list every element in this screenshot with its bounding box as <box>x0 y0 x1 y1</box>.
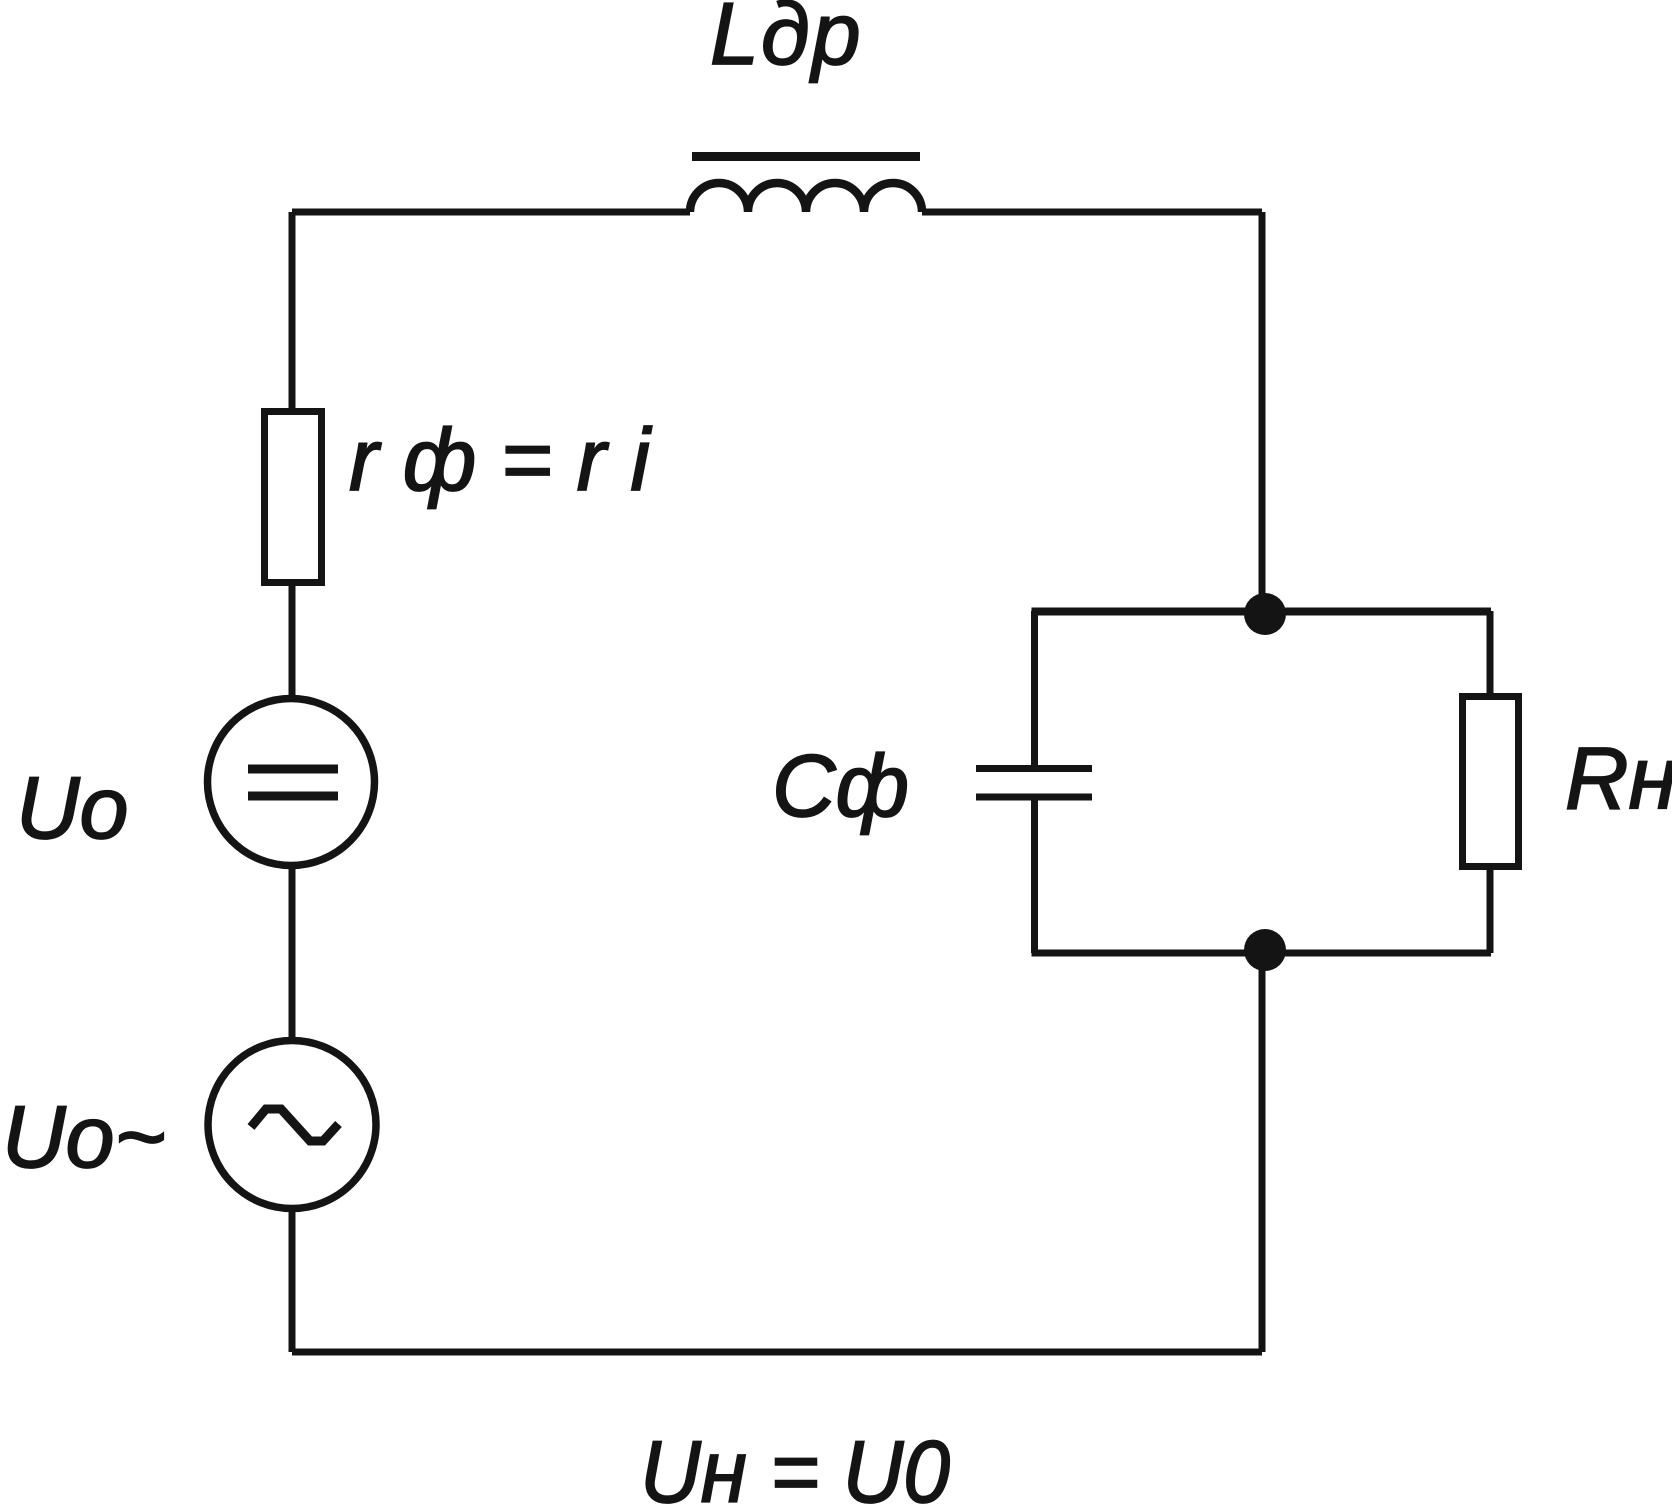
svg-text:Rн: Rн <box>1565 729 1672 828</box>
svg-text:r ф = r i: r ф = r i <box>349 410 652 509</box>
svg-text:Uо: Uо <box>16 758 129 857</box>
svg-text:Lдр: Lдр <box>710 0 863 83</box>
svg-text:Cф: Cф <box>772 736 909 835</box>
svg-text:Uн = U0: Uн = U0 <box>640 1422 950 1504</box>
svg-text:Uо~: Uо~ <box>2 1087 166 1186</box>
